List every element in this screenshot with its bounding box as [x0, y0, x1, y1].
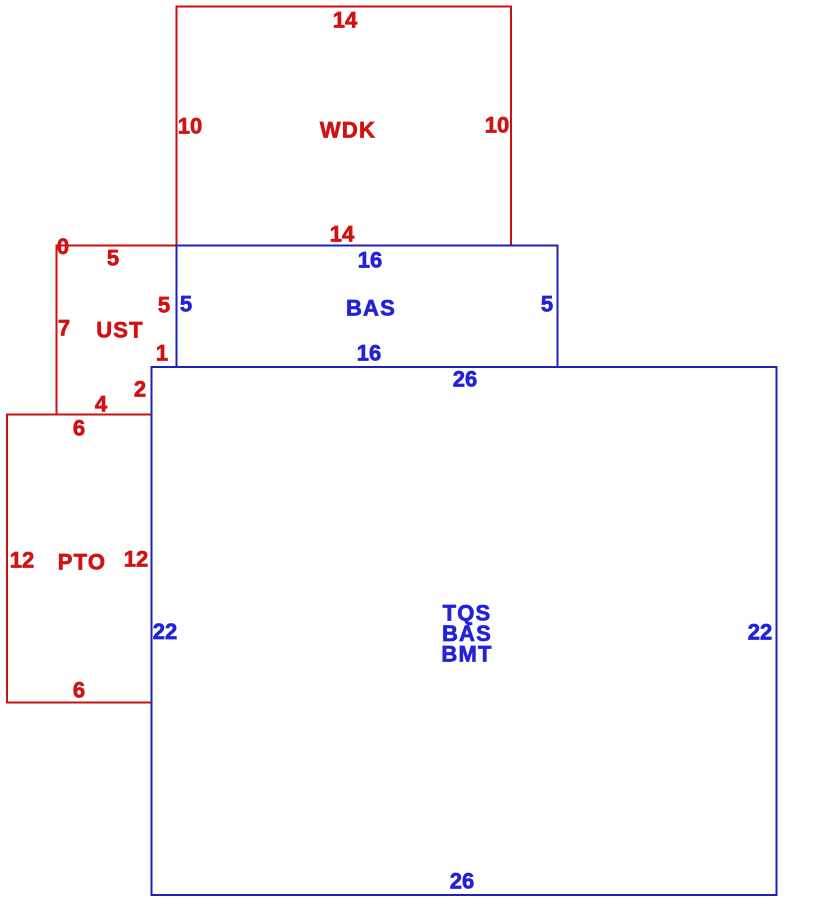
svg-text:5: 5 — [541, 292, 553, 317]
svg-text:16: 16 — [358, 248, 382, 273]
svg-text:6: 6 — [73, 416, 85, 441]
svg-text:1: 1 — [156, 341, 168, 366]
svg-text:12: 12 — [124, 547, 148, 572]
svg-text:16: 16 — [357, 341, 381, 366]
svg-text:6: 6 — [73, 678, 85, 703]
area BAS outline — [177, 246, 558, 368]
svg-text:BAS: BAS — [346, 296, 396, 321]
svg-text:WDK: WDK — [320, 118, 376, 143]
area PTO outline — [7, 415, 152, 703]
svg-text:14: 14 — [333, 8, 358, 33]
svg-text:14: 14 — [330, 222, 355, 247]
svg-text:5: 5 — [107, 246, 119, 271]
svg-text:5: 5 — [158, 293, 170, 318]
svg-text:12: 12 — [10, 548, 34, 573]
svg-text:26: 26 — [453, 367, 477, 392]
svg-text:22: 22 — [748, 620, 772, 645]
area WDK outline — [177, 7, 512, 246]
svg-text:5: 5 — [180, 292, 192, 317]
svg-text:7: 7 — [58, 316, 70, 341]
svg-text:0: 0 — [57, 234, 69, 259]
svg-text:4: 4 — [95, 392, 108, 417]
svg-text:22: 22 — [153, 619, 177, 644]
svg-text:UST: UST — [96, 318, 144, 343]
svg-text:PTO: PTO — [58, 550, 106, 575]
svg-text:BMT: BMT — [441, 642, 492, 667]
area TQS/BAS/BMT outline — [152, 367, 777, 895]
svg-text:10: 10 — [178, 114, 202, 139]
svg-text:2: 2 — [134, 377, 146, 402]
area UST outline — [57, 246, 177, 415]
svg-text:10: 10 — [485, 113, 509, 138]
svg-text:26: 26 — [450, 869, 474, 894]
